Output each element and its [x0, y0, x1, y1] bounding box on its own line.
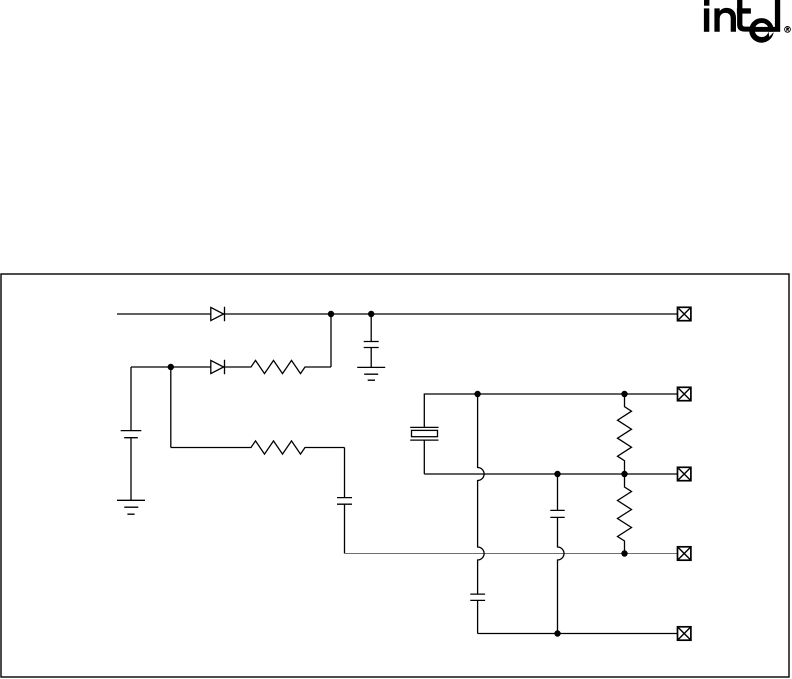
- ground G1: [357, 367, 385, 380]
- capacitor C2: [337, 498, 352, 554]
- wire crystal top: [424, 394, 477, 427]
- registered mark: [785, 27, 791, 33]
- node dot row2b-a: [474, 391, 480, 397]
- node dot row3b-a: [554, 471, 560, 477]
- node dot row5: [554, 630, 560, 636]
- terminal T3: [678, 467, 691, 480]
- terminal T2: [678, 387, 691, 400]
- node dot row1-b: [368, 311, 374, 317]
- resistor R1: [246, 360, 310, 373]
- wire row4 gray: [345, 553, 678, 555]
- wire row1 main: [117, 313, 677, 315]
- wire row2b: [478, 393, 677, 395]
- terminal T5: [678, 627, 691, 640]
- node dot row3b-b: [621, 471, 627, 477]
- wire row2: [131, 366, 331, 368]
- intel logo: [704, 0, 790, 43]
- node dot row2b-b: [621, 391, 627, 397]
- diode D1: [211, 307, 225, 321]
- resistor R4: [618, 474, 632, 554]
- wire vertical from row1 dot to row2: [330, 314, 332, 367]
- terminal T4: [678, 547, 691, 560]
- wire crystal bottom: [423, 440, 425, 474]
- wire vertical to C2: [344, 448, 346, 498]
- figure frame: [1, 274, 789, 677]
- capacitor C1: [364, 342, 379, 368]
- capacitor C4: [470, 594, 485, 633]
- node dot row4: [621, 550, 627, 556]
- resistor R3: [618, 394, 632, 474]
- terminal T1: [678, 307, 691, 320]
- ground G2: [117, 500, 145, 514]
- wire row5: [478, 633, 677, 635]
- wire row2 to row3 vertical: [170, 367, 172, 448]
- wire row3: [171, 447, 345, 449]
- wire long vertical with hops: [478, 394, 485, 594]
- wire mid vertical with hop: [558, 517, 565, 633]
- i stem: [704, 8, 709, 31]
- wire mid vertical from row3b: [557, 474, 559, 510]
- t crossbar: [737, 8, 751, 13]
- e dropped: [749, 18, 774, 43]
- node dot row2: [168, 364, 174, 370]
- capacitor C3: [550, 510, 564, 517]
- battery B1: [121, 431, 142, 501]
- l: [775, 0, 780, 32]
- wire cap C1 lead: [370, 314, 372, 341]
- wire battery branch vertical: [130, 367, 132, 431]
- i dot: [704, 0, 709, 6]
- diode D2: [211, 360, 225, 374]
- n: [714, 8, 736, 32]
- t stem with foot: [737, 0, 751, 32]
- node dot row1-a: [328, 311, 334, 317]
- crystal Y1: [410, 427, 438, 440]
- resistor R2: [246, 441, 310, 454]
- wire row3b: [424, 473, 677, 475]
